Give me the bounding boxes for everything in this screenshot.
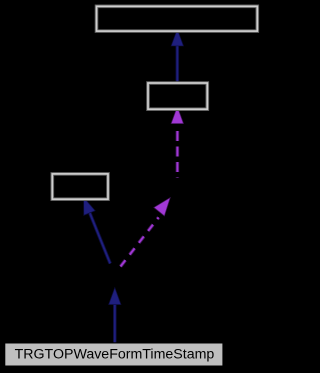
node C (left class box, empty) <box>52 174 108 199</box>
edge D->junction inheritance arrow (solid midnightblue, vertical) <box>110 290 120 343</box>
svg-text:TRGTOPWaveFormTimeStamp: TRGTOPWaveFormTimeStamp <box>15 346 215 362</box>
edge junction->C inheritance arrow (solid midnightblue, diagonal) <box>84 199 110 263</box>
node B (middle class box, empty) <box>148 83 207 109</box>
edge mid-label->B usage arrow (dashed darkorchid, vertical) <box>172 109 182 178</box>
edge B->A inheritance arrow (solid midnightblue) <box>172 31 182 82</box>
node D: TRGTOPWaveFormTimeStamp (current class, gray filled) <box>5 343 223 366</box>
node A (top class box, empty) <box>97 6 258 31</box>
edge junction->mid-label usage arrow (dashed darkorchid, diagonal) <box>121 199 169 266</box>
